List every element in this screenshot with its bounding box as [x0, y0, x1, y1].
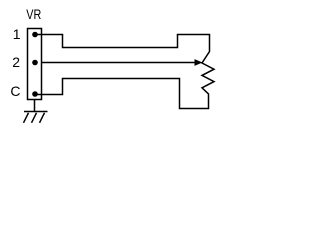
svg-text:C: C	[10, 83, 20, 99]
svg-text:2: 2	[12, 54, 20, 70]
svg-text:1: 1	[13, 26, 21, 42]
svg-text:VR: VR	[26, 6, 41, 22]
